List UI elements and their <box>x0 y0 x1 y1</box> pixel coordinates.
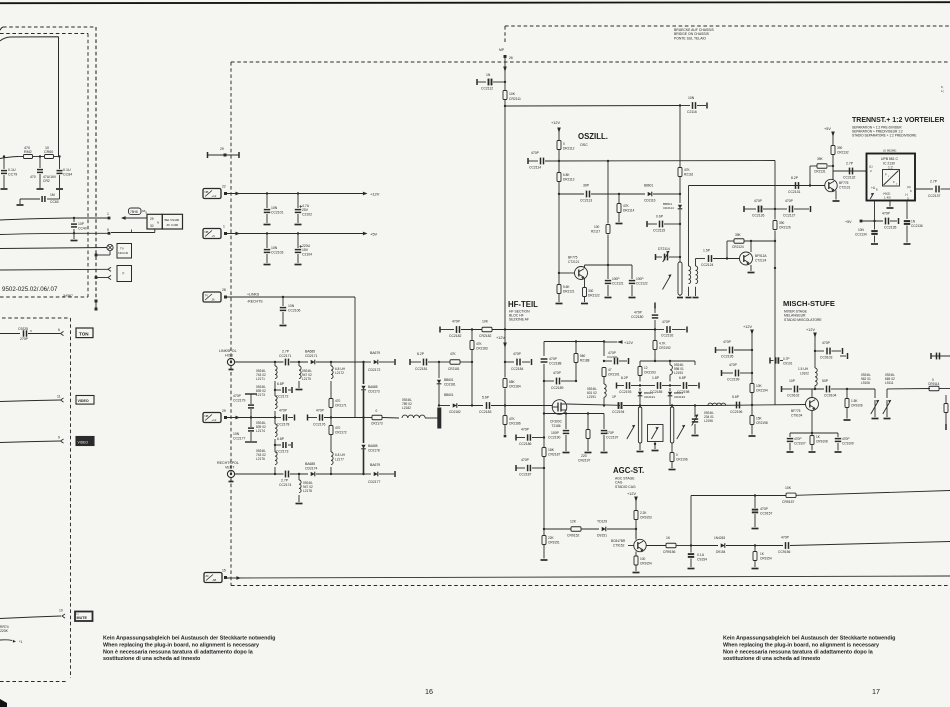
resistor CR2198 15K <box>749 405 768 436</box>
svg-text:BF775: BF775 <box>568 256 578 260</box>
capacitor CC2191 470P <box>604 351 629 364</box>
capacitor CC40 10P <box>71 218 87 233</box>
title MISCH-STUFE <box>783 299 835 322</box>
svg-text:15V: 15V <box>302 248 309 252</box>
svg-text:2.7P: 2.7P <box>930 180 938 184</box>
resistor CR9106 1.5K <box>844 389 863 420</box>
resistor CR2187 18K <box>542 414 561 530</box>
svg-text:10P: 10P <box>789 379 796 383</box>
svg-text:BC847BR: BC847BR <box>611 539 626 543</box>
svg-text:30: 30 <box>150 224 154 228</box>
svg-text:CC2122: CC2122 <box>636 282 648 286</box>
svg-text:L(: L( <box>941 89 944 93</box>
capacitor C9225 270P <box>0 327 64 341</box>
svg-text:22K: 22K <box>548 536 555 540</box>
mid bus CC2178 <box>274 409 295 427</box>
svg-text:+12: +12 <box>212 194 217 198</box>
svg-text:CD2177: CD2177 <box>368 480 381 484</box>
svg-text:5.6P: 5.6P <box>732 395 740 399</box>
capacitor CC2115 0.6P <box>647 215 680 233</box>
svg-text:AGC-ST.: AGC-ST. <box>613 466 644 475</box>
svg-text:470P: 470P <box>760 507 769 511</box>
osc output wire <box>689 185 826 187</box>
svg-text:470P: 470P <box>553 371 562 375</box>
pin 29 connector <box>203 409 227 423</box>
svg-text:CR2111: CR2111 <box>509 97 521 101</box>
svg-text:CC9156: CC9156 <box>778 550 791 554</box>
svg-text:2H0867: 2H0867 <box>63 294 73 298</box>
svg-text:100P: 100P <box>551 431 560 435</box>
inductor L2171 <box>256 362 277 390</box>
svg-text:CC9102: CC9102 <box>787 394 800 398</box>
svg-text:LINKSPOL: LINKSPOL <box>219 349 237 353</box>
capacitor CC2193 8.2P <box>617 376 642 394</box>
svg-text:11: 11 <box>57 395 61 399</box>
svg-text:CC9107: CC9107 <box>794 442 806 446</box>
transistor CT9104 BF775 <box>791 398 819 418</box>
svg-text:F: F <box>885 173 887 177</box>
svg-text:1.8P: 1.8P <box>652 376 660 380</box>
capacitor CC9104 50P <box>822 379 848 398</box>
mixer emitter <box>811 411 813 435</box>
transistor CT2121 BF775 <box>559 256 588 280</box>
IC2130 UPB581C box <box>867 149 916 201</box>
capacitor CC9156 470P <box>755 536 950 555</box>
svg-text:+5V: +5V <box>824 127 831 131</box>
svg-text:R2116: R2116 <box>684 173 693 177</box>
switch box 29/30 <box>147 214 162 229</box>
svg-text:CR2173: CR2173 <box>371 422 383 426</box>
var arrow osc <box>663 275 672 290</box>
capacitor CC2182 470P <box>449 320 482 339</box>
info box BEI VS490 ZF C490 <box>162 214 182 229</box>
capacitor CC2184 470P <box>505 352 532 371</box>
svg-text:470P: 470P <box>781 536 790 540</box>
osc rail2 <box>559 193 584 195</box>
svg-text:CR2183: CR2183 <box>476 347 488 351</box>
svg-text:CC2183: CC2183 <box>479 410 492 414</box>
wire to lamp <box>0 248 107 249</box>
svg-text:270P: 270P <box>20 337 29 341</box>
svg-text:68K: 68K <box>509 380 516 384</box>
transistor CT9152 BC847BR <box>611 529 646 552</box>
svg-text:RECHTSPOL: RECHTSPOL <box>217 461 239 465</box>
text 2H0867 <box>63 294 73 298</box>
svg-text:BA679: BA679 <box>370 463 380 467</box>
svg-text:CR2172: CR2172 <box>335 431 347 435</box>
svg-text:12K: 12K <box>570 520 577 524</box>
svg-text:sostituzione di una scheda ad: sostituzione di una scheda ad innesto <box>723 656 821 662</box>
svg-text:CC2132: CC2132 <box>843 176 856 180</box>
diode CD2174 BA685 <box>305 462 365 476</box>
svg-text:PONTE SUL TELAIO: PONTE SUL TELAIO <box>674 36 706 40</box>
svg-text:CC2106: CC2106 <box>288 309 301 313</box>
osc rail <box>528 158 560 164</box>
svg-text:CT9152: CT9152 <box>613 544 625 548</box>
resistor CR9154b 1K <box>752 546 772 569</box>
svg-text:100: 100 <box>594 225 600 229</box>
capacitor CC9103 470P <box>815 341 843 360</box>
svg-text:NB: NB <box>205 414 209 418</box>
svg-text:TON: TON <box>79 331 89 336</box>
svg-text:100: 100 <box>640 557 646 561</box>
svg-text:+5V: +5V <box>370 232 378 237</box>
svg-text:470P: 470P <box>754 199 763 203</box>
+12V mixer left <box>743 325 754 350</box>
svg-text:1 4/5: 1 4/5 <box>884 196 891 200</box>
osc coil winding 1 <box>686 186 692 298</box>
diode CD2114 BB601 <box>663 194 682 225</box>
capacitor CC2197 470P <box>601 414 619 453</box>
svg-text:+12V: +12V <box>551 121 560 125</box>
svg-text:CC2136: CC2136 <box>911 224 923 228</box>
svg-text:8.2P: 8.2P <box>621 376 629 380</box>
capacitor CC9157 470P <box>752 496 773 529</box>
pad column <box>95 300 98 311</box>
svg-text:29: 29 <box>222 409 226 413</box>
capacitor CC9109 470P <box>812 433 854 452</box>
svg-text:B8601: B8601 <box>644 184 653 188</box>
svg-text:22: 22 <box>222 185 226 189</box>
+12V osc <box>551 121 561 140</box>
svg-text:1.5K: 1.5K <box>851 399 858 403</box>
svg-text:220K: 220K <box>0 629 9 633</box>
capacitor CC2172 6.8P <box>274 382 292 399</box>
svg-text:470P: 470P <box>822 341 831 345</box>
svg-text:CR2191: CR2191 <box>608 373 620 377</box>
svg-text:4.7K: 4.7K <box>659 342 666 346</box>
svg-text:1N4263: 1N4263 <box>714 536 725 540</box>
capacitor CC2113 39P <box>580 184 645 203</box>
pin 15 AGC wire <box>227 576 950 580</box>
svg-text:L2173: L2173 <box>256 393 265 397</box>
antenna connector RECHTSPOL <box>227 470 234 481</box>
resistor CR2181 47K <box>439 352 473 371</box>
svg-text:470P: 470P <box>452 320 461 324</box>
svg-text:47: 47 <box>608 368 612 372</box>
svg-text:C2104: C2104 <box>302 253 312 257</box>
svg-text:6.8K: 6.8K <box>563 173 570 177</box>
svg-text:CC2186: CC2186 <box>519 442 532 446</box>
resistor CR2197 220 <box>578 412 592 462</box>
svg-text:CD2114: CD2114 <box>663 206 674 210</box>
svg-text:CR9154: CR9154 <box>640 562 652 566</box>
svg-text:SEZIONE AF: SEZIONE AF <box>509 318 529 322</box>
osc supply rail <box>505 104 681 106</box>
svg-text:BF775: BF775 <box>791 409 801 413</box>
inductor L2173 <box>256 385 277 418</box>
svg-text:RM2: RM2 <box>24 150 32 154</box>
svg-text:CR2187: CR2187 <box>548 453 561 457</box>
svg-text:CD2178: CD2178 <box>368 449 380 453</box>
svg-text:1N: 1N <box>911 220 916 224</box>
capacitor CC79 0.1U <box>1 155 18 189</box>
svg-text:6.8P: 6.8P <box>679 376 687 380</box>
title TRENNST <box>852 117 944 138</box>
svg-text:470P: 470P <box>723 340 732 344</box>
resistor RM2 470 <box>18 146 41 159</box>
svg-text:DR2112: DR2112 <box>563 147 575 151</box>
title HF-TEIL <box>508 300 538 322</box>
capacitor C2116 10N <box>680 96 707 114</box>
svg-text:CC2101: CC2101 <box>271 211 284 215</box>
box VIDEO <box>76 396 94 405</box>
capacitor CC2187 470P <box>516 458 544 477</box>
capacitor CC2173 6.8P <box>274 437 292 454</box>
svg-text:L9102: L9102 <box>800 372 809 376</box>
diode D9154 1N4263 <box>691 536 756 554</box>
resistor CR2196 0 <box>669 450 688 470</box>
svg-text:CC2177: CC2177 <box>233 437 246 441</box>
svg-text:C2116: C2116 <box>687 110 697 114</box>
resistor CR2194 10K <box>750 350 768 406</box>
capacitor CC2127 470P <box>775 199 811 218</box>
svg-text:CC2171: CC2171 <box>279 354 292 358</box>
mixer collector line <box>782 386 793 392</box>
resistor CR9151 22K <box>541 529 560 560</box>
IC output wire <box>915 188 933 190</box>
diode CD2193 BB601 <box>668 388 686 406</box>
svg-text:BF912A: BF912A <box>755 254 767 258</box>
wire arrow to switch box <box>121 216 147 220</box>
bandfilter frame <box>544 340 605 356</box>
svg-text:39K: 39K <box>817 157 824 161</box>
svg-text:100P: 100P <box>612 277 619 281</box>
svg-text:6.8P: 6.8P <box>277 437 285 441</box>
svg-text:47K: 47K <box>476 342 483 346</box>
capacitor CC2112 1N <box>477 73 506 91</box>
svg-text:BA685: BA685 <box>305 462 315 466</box>
svg-text:CC2115: CC2115 <box>653 229 665 233</box>
svg-text:CC2190: CC2190 <box>548 436 561 440</box>
svg-text:470P: 470P <box>634 311 643 315</box>
label RECHTSPOL VERT <box>217 461 239 470</box>
svg-text:CC2121: CC2121 <box>612 282 624 286</box>
svg-text:2.7P: 2.7P <box>846 162 854 166</box>
svg-text:F: F <box>123 272 125 276</box>
capacitor CC2103 10N <box>264 232 284 264</box>
wire node 1 <box>0 212 110 220</box>
capacitor CC2183 5.6P <box>479 396 553 415</box>
svg-text:0.1U: 0.1U <box>8 168 16 172</box>
svg-text:CR2196: CR2196 <box>676 458 688 462</box>
svg-text:CC2197: CC2197 <box>606 436 619 440</box>
svg-text:L2177: L2177 <box>335 458 344 462</box>
svg-text:10K: 10K <box>756 384 763 388</box>
inductor L2174 <box>256 418 277 446</box>
capacitor CC2190 100P <box>548 412 570 452</box>
svg-text:220: 220 <box>581 454 587 458</box>
inductor L2191 <box>587 342 620 407</box>
AGC out wire <box>646 545 666 547</box>
svg-text:CT2131: CT2131 <box>839 186 851 190</box>
svg-text:5.6P: 5.6P <box>482 396 490 400</box>
svg-text:CC9109: CC9109 <box>842 442 854 446</box>
svg-text:OSC: OSC <box>580 143 588 147</box>
wire fet drain bus <box>567 404 620 405</box>
svg-text:D9151: D9151 <box>597 534 607 538</box>
capacitor CC2132 2.7P <box>843 162 856 180</box>
capacitor CC2179 470P <box>233 394 257 419</box>
svg-text:R2117: R2117 <box>591 230 600 234</box>
svg-text:CD2193: CD2193 <box>674 395 685 399</box>
resistor CR2111 10K <box>503 68 521 106</box>
capacitor CC2185 1.8P <box>640 376 671 394</box>
resistor CR2124 39K <box>727 233 776 259</box>
svg-text:470P: 470P <box>521 458 530 462</box>
var inductor L9106 <box>861 373 879 419</box>
var capacitor <box>692 404 699 435</box>
wire bus to mixer <box>708 405 806 406</box>
svg-text:CR2192: CR2192 <box>659 346 671 350</box>
svg-text:CC2196: CC2196 <box>730 410 743 414</box>
svg-text:VIDEO: VIDEO <box>78 441 89 445</box>
resistor R2117 100 <box>591 225 610 234</box>
+5V feed IC <box>845 220 883 224</box>
svg-text:CD2116: CD2116 <box>644 199 656 203</box>
right edge resistor <box>944 395 948 430</box>
svg-text:+12V: +12V <box>370 192 380 197</box>
svg-text:TD129: TD129 <box>597 520 607 524</box>
svg-text:12: 12 <box>644 366 648 370</box>
resistor CR2131 39K <box>809 157 833 187</box>
diode CD2172 BA679 <box>364 351 396 372</box>
svg-text:390: 390 <box>837 146 843 150</box>
svg-text:CC84: CC84 <box>63 173 72 177</box>
svg-text:When replacing the plug-in boa: When replacing the plug-in board, no ali… <box>723 642 879 648</box>
wire <box>235 473 284 475</box>
capacitor CC2171 2.7P <box>274 350 308 366</box>
IC pin3 wire <box>906 201 908 220</box>
svg-text:CR9157: CR9157 <box>782 500 795 504</box>
capacitor CC2135 470P <box>882 212 899 230</box>
diode CD2191 BB601 <box>638 388 656 406</box>
svg-text:10K: 10K <box>509 92 516 96</box>
capacitor CC2186 470P <box>516 428 545 447</box>
svg-text:NB: NB <box>205 230 209 234</box>
svg-text:8.2P: 8.2P <box>791 176 799 180</box>
resistor CR9157 10K <box>755 486 950 504</box>
wire node arrow F <box>0 267 111 271</box>
resistor CR2182 10K <box>479 320 655 339</box>
svg-text:26: 26 <box>509 56 513 60</box>
svg-text:CR9108: CR9108 <box>816 440 828 444</box>
svg-text:0.1U: 0.1U <box>63 168 71 172</box>
svg-text:470P: 470P <box>521 428 530 432</box>
svg-text:CC2182: CC2182 <box>449 334 462 338</box>
pin 1 connector <box>203 225 227 239</box>
capacitor C2102 4.7U <box>295 192 313 224</box>
svg-text:CC2195: CC2195 <box>721 355 734 359</box>
capacitor CC2131 8.2P <box>788 176 801 194</box>
svg-text:Kein Anpassungsabgleich bei Au: Kein Anpassungsabgleich bei Austausch de… <box>103 636 275 642</box>
resistor CR2172 470 <box>329 418 347 453</box>
capacitor CC2195 470P <box>716 340 754 359</box>
svg-text:When replacing the plug-in boa: When replacing the plug-in board, no ali… <box>103 642 259 648</box>
IC UB pin wire <box>870 193 876 222</box>
svg-text:CC2131: CC2131 <box>788 190 801 194</box>
right edge stub1 <box>840 353 848 359</box>
svg-text:CR9114: CR9114 <box>928 382 940 386</box>
svg-text:+12V: +12V <box>806 328 815 332</box>
filter coil right <box>670 407 673 450</box>
wire lamp to pad <box>95 251 110 257</box>
resistor CR2173 0 <box>364 409 400 426</box>
svg-text:L2176: L2176 <box>256 457 265 461</box>
svg-text:CC2174: CC2174 <box>279 483 292 487</box>
svg-text:CR2124: CR2124 <box>732 245 744 249</box>
capacitor CC2106 10N <box>280 296 301 326</box>
wire base <box>558 194 560 273</box>
wire pad arrow F2 <box>95 275 111 279</box>
svg-text:9502-025.02/.06/.07: 9502-025.02/.06/.07 <box>2 286 58 293</box>
svg-text:CC2126: CC2126 <box>752 214 765 218</box>
wire <box>504 341 506 407</box>
svg-text:10N: 10N <box>271 206 278 210</box>
svg-text:25V: 25V <box>302 208 309 212</box>
svg-text:K30-K40: K30-K40 <box>118 251 129 255</box>
svg-text:470P: 470P <box>513 352 522 356</box>
svg-text:Non è necessaria nessuna tarat: Non è necessaria nessuna taratura di ada… <box>103 649 254 655</box>
wire pin 11 <box>0 395 64 403</box>
svg-text:OSZILL.: OSZILL. <box>578 132 608 141</box>
wire <box>235 361 284 363</box>
antenna connector LINKSPOL <box>227 358 234 369</box>
svg-text:CC2172: CC2172 <box>276 395 289 399</box>
svg-text:CC2135: CC2135 <box>884 226 897 230</box>
svg-text:CC2191: CC2191 <box>607 355 618 359</box>
svg-text:18K: 18K <box>548 448 555 452</box>
svg-text:29: 29 <box>220 147 224 151</box>
diode CD2181 BB601 <box>437 362 456 406</box>
capacitor C2104 220U <box>295 232 313 264</box>
svg-text:15: 15 <box>222 569 226 573</box>
svg-text:CC79: CC79 <box>8 173 17 177</box>
wire x544 to AGC <box>543 528 545 530</box>
svg-text:STADIO CAG: STADIO CAG <box>615 485 636 489</box>
diode CD2171 BA685 <box>305 350 365 365</box>
+12V feed mixer filter <box>604 340 633 345</box>
svg-text:(U 86286): (U 86286) <box>883 149 896 153</box>
svg-text:470P: 470P <box>549 357 558 361</box>
svg-text:BB601: BB601 <box>444 378 454 382</box>
transistor CT2124 BF912A <box>740 241 768 273</box>
svg-text:0: 0 <box>376 409 378 413</box>
diode CD2178 BA685 <box>361 418 380 475</box>
svg-text:CT2124: CT2124 <box>755 259 767 263</box>
resistor CR9114 0 <box>928 378 950 391</box>
svg-text:470P: 470P <box>662 320 671 324</box>
svg-text:560: 560 <box>580 354 586 358</box>
svg-text:6.8P: 6.8P <box>277 382 285 386</box>
capacitor CC2122 100P <box>629 265 648 298</box>
svg-text:1: 1 <box>223 225 225 229</box>
pin 28 wire +LINKS/-RECHTS <box>227 293 355 418</box>
diode CD2116 B8601 <box>644 184 681 203</box>
pin 28 connector <box>203 288 227 302</box>
+5V trennst <box>824 127 835 145</box>
svg-text:L9111: L9111 <box>885 381 894 385</box>
inductor L2175 <box>296 362 312 390</box>
capacitor CC2136 1N <box>904 220 923 245</box>
svg-text:100P: 100P <box>636 277 643 281</box>
box F <box>117 266 132 282</box>
capacitor CC2198 6.8P <box>670 376 699 394</box>
svg-text:1.5 UH: 1.5 UH <box>798 367 809 371</box>
capacitor CC2124 1.5P <box>701 249 740 268</box>
capacitor CC2188 470P <box>541 357 562 382</box>
svg-text:CD2191: CD2191 <box>644 395 655 399</box>
